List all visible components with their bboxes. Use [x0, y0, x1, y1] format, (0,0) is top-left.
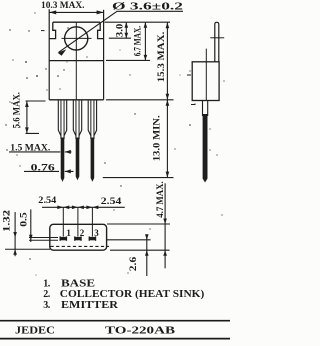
svg-text:4.7 MAX.: 4.7 MAX.	[155, 181, 165, 218]
leader line 1.5 MAX	[9, 151, 72, 153]
dimension 5.6 bracket	[26, 101, 46, 133]
tab left side	[49, 22, 55, 38]
side view tab	[215, 22, 219, 62]
vertical centerline	[75, 22, 77, 100]
dimension line 10.3	[49, 11, 103, 13]
pin 2 mark	[74, 236, 82, 240]
svg-text:15.3 MAX.: 15.3 MAX.	[156, 32, 166, 83]
lead 1 front view	[58, 100, 66, 182]
tab/body boundary line	[49, 60, 103, 62]
svg-text:1.: 1.	[43, 278, 51, 289]
svg-text:BASE: BASE	[61, 278, 95, 289]
front view tab top edge	[53, 21, 100, 23]
pin line extension right	[107, 239, 151, 241]
side view hole center line	[210, 37, 224, 39]
side view body	[192, 62, 219, 101]
svg-text:6.7 MAX.: 6.7 MAX.	[132, 26, 142, 56]
svg-text:1.5 MAX.: 1.5 MAX.	[10, 142, 50, 152]
svg-text:2.54: 2.54	[38, 195, 57, 205]
bottom view outline	[50, 224, 107, 250]
extension line lead tips	[103, 177, 174, 179]
leader line 0.76	[24, 170, 74, 172]
extension line left	[48, 9, 50, 100]
pin 3 mark	[89, 236, 97, 240]
extension drop lines to pins	[63, 207, 92, 236]
notch tick left	[41, 30, 45, 32]
svg-text:1.32: 1.32	[2, 209, 12, 232]
table rules	[0, 321, 230, 339]
bottom view dashed line	[51, 245, 110, 247]
svg-text:10.3 MAX.: 10.3 MAX.	[41, 1, 85, 11]
svg-text:3: 3	[94, 228, 99, 238]
mounting hole circle	[65, 27, 88, 50]
body bottom line	[49, 99, 103, 101]
lead 2 front view	[73, 100, 81, 181]
svg-text:13.0 MIN.: 13.0 MIN.	[152, 115, 162, 161]
svg-text:TO-220AB: TO-220AB	[105, 326, 175, 337]
dimension line 2.54	[42, 206, 125, 208]
svg-text:2: 2	[80, 228, 85, 238]
svg-text:EMITTER: EMITTER	[61, 300, 119, 311]
bottom edge extension left	[5, 248, 50, 250]
extension line tab top right	[105, 21, 171, 23]
svg-text:0.5: 0.5	[19, 212, 29, 227]
svg-text:COLLECTOR (HEAT SINK): COLLECTOR (HEAT SINK)	[60, 289, 205, 300]
extension line boundary right	[106, 59, 150, 61]
pin function list	[43, 278, 204, 311]
pin extension lines left	[29, 238, 58, 241]
side view lead	[203, 101, 208, 117]
lead 3 front view	[88, 100, 96, 182]
tab right side	[98, 22, 104, 38]
svg-text:2.: 2.	[43, 289, 51, 300]
pin 1 mark	[60, 236, 68, 240]
svg-text:JEDEC: JEDEC	[15, 326, 55, 337]
svg-text:3.0: 3.0	[114, 23, 124, 37]
leader line for hole diameter	[59, 11, 183, 52]
svg-text:2.6: 2.6	[128, 256, 138, 271]
extension line body bottom right	[106, 99, 174, 101]
svg-text:3.: 3.	[43, 300, 51, 311]
svg-text:1: 1	[66, 228, 71, 238]
side view weld tick	[187, 75, 196, 105]
rect top extension right	[107, 223, 170, 225]
hole horizontal centerline	[62, 37, 92, 39]
extension line right	[103, 10, 105, 100]
extension line hole center right	[109, 37, 131, 39]
rect bottom extension right	[110, 249, 170, 251]
side view inner lead line	[205, 49, 207, 101]
svg-text:5.6 MAX.: 5.6 MAX.	[12, 92, 22, 128]
scan speckles	[5, 12, 224, 275]
svg-text:2.54: 2.54	[101, 196, 122, 206]
